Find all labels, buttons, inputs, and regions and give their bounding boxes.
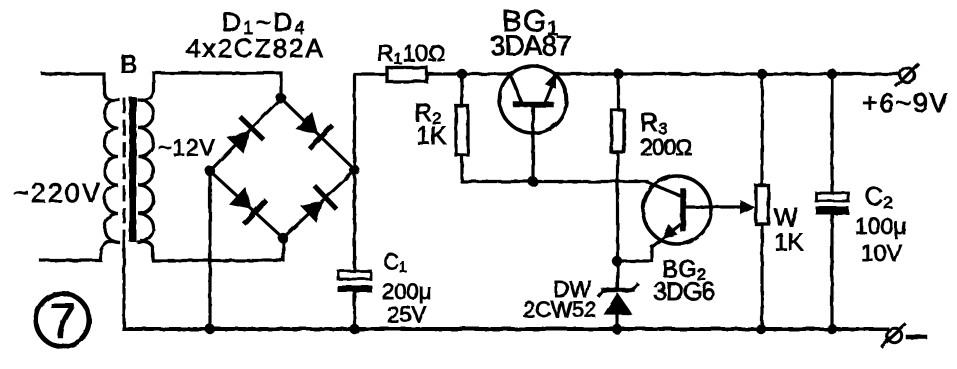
node C1 bottom <box>349 324 359 334</box>
node BG1 base junction <box>528 176 538 186</box>
svg-text:2CW52: 2CW52 <box>523 297 596 322</box>
wire core to bottom rail <box>122 242 125 329</box>
svg-text:25V: 25V <box>387 302 426 327</box>
svg-text:B: B <box>120 49 137 79</box>
svg-text:200Ω: 200Ω <box>640 134 692 160</box>
diode D4 bottom-right <box>299 188 336 225</box>
resistor R1 <box>387 68 427 82</box>
svg-text:7: 7 <box>49 295 76 348</box>
diode D3 bottom-left <box>228 185 265 222</box>
node W bottom <box>756 324 766 334</box>
wire C1 top <box>353 170 356 271</box>
wire C2 top <box>830 74 833 193</box>
wire primary top lead <box>43 74 113 101</box>
transistor BG2 collector line <box>648 183 681 197</box>
wire primary bottom lead <box>41 241 113 261</box>
node zener bottom <box>612 324 622 334</box>
wire R2 bottom to base line <box>462 155 647 182</box>
wire zener to bottom rail <box>615 314 618 329</box>
pot wiper arrow <box>740 200 756 214</box>
transistor BG2 circle <box>643 176 711 244</box>
resistor R3 <box>612 110 625 152</box>
figure number 7 circle <box>36 294 89 347</box>
node bridge top <box>276 93 286 103</box>
diode D2 top-right <box>294 110 331 147</box>
terminal + output <box>900 68 914 82</box>
capacitor C2 plus plate <box>816 193 849 201</box>
transistor BG1 collector line <box>510 75 522 104</box>
transistor BG1 circle <box>500 66 567 133</box>
resistor R2 <box>456 106 468 155</box>
wire R2 top <box>460 74 463 106</box>
node bridge bottom <box>278 233 288 243</box>
node W top junction <box>757 69 767 79</box>
svg-text:1K: 1K <box>774 229 803 256</box>
node R3 top junction <box>613 69 623 79</box>
svg-text:4x2CZ82A: 4x2CZ82A <box>186 33 325 63</box>
wire W pot bottom <box>760 224 763 329</box>
svg-text:1K: 1K <box>416 122 447 150</box>
transistor BG1 base bar <box>516 102 551 108</box>
wire W pot top <box>760 74 763 186</box>
transformer core bar <box>129 97 137 242</box>
wire secondary top lead to bridge top <box>142 73 281 101</box>
svg-text:100μ: 100μ <box>855 213 907 239</box>
transistor BG2 base bar <box>680 191 686 229</box>
wire R3 top <box>617 74 620 110</box>
transistor BG2 emitter line with arrow <box>652 224 681 247</box>
svg-text:W: W <box>774 204 798 232</box>
wire bridge right node up to top rail <box>355 74 388 170</box>
bridge edge left-bottom wire <box>210 171 283 238</box>
svg-text:3DA87: 3DA87 <box>490 30 571 61</box>
wire R1 to BG1 <box>427 72 513 75</box>
node R2 top junction <box>457 69 467 79</box>
svg-text:10V: 10V <box>861 240 903 266</box>
svg-text:200μ: 200μ <box>382 279 431 304</box>
node bridge left <box>205 166 215 176</box>
zener diode DW <box>603 288 633 293</box>
bridge edge top-right wire <box>281 98 355 170</box>
bridge edge bottom-right wire <box>283 170 355 238</box>
svg-text:C2: C2 <box>865 183 893 212</box>
wire C2 bottom <box>830 214 833 330</box>
wire bridge left node to bottom rail <box>208 171 211 329</box>
wire BG2 base to pot wiper <box>686 205 742 208</box>
wire BG1 base lead <box>531 107 534 182</box>
svg-text:~12V: ~12V <box>158 135 216 161</box>
wire C1 bottom <box>353 292 356 329</box>
capacitor C1 minus plate <box>338 286 373 293</box>
svg-text:3DG6: 3DG6 <box>653 278 714 306</box>
node C2 bottom <box>827 324 837 334</box>
svg-text:C1: C1 <box>383 249 407 276</box>
svg-text:~220V: ~220V <box>13 178 102 208</box>
wire R3 bottom to zener <box>616 152 619 288</box>
terminal - output <box>887 328 901 342</box>
transformer secondary winding <box>139 100 154 243</box>
wire BG2 emitter to zener node <box>617 247 652 261</box>
diode D1 top-left <box>225 118 262 155</box>
transformer primary winding <box>105 100 119 243</box>
svg-text:R110Ω: R110Ω <box>377 40 445 68</box>
transformer core dashed line <box>123 99 126 240</box>
bridge edge left-top wire <box>210 98 281 171</box>
node zener top junction <box>612 256 622 266</box>
node C2 top junction <box>827 69 837 79</box>
wire top rail BG1 to + terminal <box>555 72 899 75</box>
capacitor C2 minus plate <box>816 207 850 215</box>
capacitor C1 plus plate <box>338 271 371 279</box>
node bridge-left bottom <box>205 324 215 334</box>
transistor BG1 emitter line with arrow <box>545 75 557 104</box>
potentiometer W <box>756 186 769 225</box>
bottom rail wire <box>124 327 887 331</box>
wire secondary bottom lead to bridge bottom <box>142 238 284 261</box>
svg-text:+6~9V: +6~9V <box>862 88 949 118</box>
node bridge right <box>349 165 359 175</box>
